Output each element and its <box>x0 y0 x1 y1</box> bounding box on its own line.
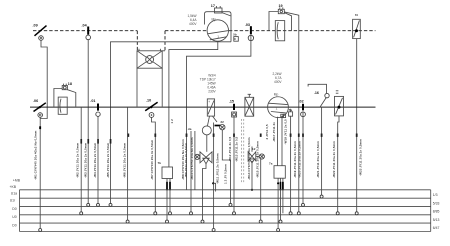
svg-text:.16: .16 <box>314 91 319 95</box>
wire valve V2 contact to rail 5 <box>261 159 262 222</box>
rail block frame <box>19 190 21 232</box>
svg-text:-W20 JY11 20a 2x 0,5mm: -W20 JY11 20a 2x 0,5mm <box>297 141 301 178</box>
rail 1 <box>20 189 431 191</box>
svg-text:-W5 JY11 20a 2x 0,5mm: -W5 JY11 20a 2x 0,5mm <box>106 143 110 178</box>
dashed control bus segment 3 <box>229 30 376 32</box>
wire S16 to rail 2 <box>321 107 323 196</box>
terminal X15 <box>229 99 237 117</box>
rail 6 <box>20 231 431 233</box>
switch S06 on main bus <box>33 99 46 117</box>
wire P box to terminal 32 <box>213 116 218 122</box>
motor M1 <box>207 18 229 42</box>
pressure switch 2 (top right) <box>353 14 361 39</box>
svg-text:2: 2 <box>355 14 359 16</box>
dashed drop to valve box left pin <box>136 31 138 51</box>
rail 3 <box>20 205 431 207</box>
relay 19 body <box>275 21 284 41</box>
rail labels left <box>9 178 20 227</box>
actuator P box <box>207 99 214 116</box>
motor M2 left leg to heater box B <box>277 117 279 166</box>
svg-text:+KB: +KB <box>9 185 16 189</box>
svg-text:-W17 JY11 2x: -W17 JY11 2x <box>272 122 276 142</box>
dashed control bus segment 1 <box>33 30 137 32</box>
svg-text:18: 18 <box>68 82 72 86</box>
cable markers <box>80 134 357 144</box>
wire Y terminal to rail 6 <box>213 123 215 231</box>
svg-text:-W22 JY11 20a 2x 0,5mm: -W22 JY11 20a 2x 0,5mm <box>332 141 336 178</box>
svg-text:-W3 JY11 20a 2x 0,5mm: -W3 JY11 20a 2x 0,5mm <box>84 143 88 178</box>
svg-text:-W7 CYKY40 20a 4x 0,5mm: -W7 CYKY40 20a 4x 0,5mm <box>150 140 154 180</box>
svg-text:1: 1 <box>276 107 278 111</box>
svg-text:.09: .09 <box>33 24 38 28</box>
relay 18 body <box>58 97 67 114</box>
svg-text:Mp: Mp <box>274 93 279 97</box>
relay 19 connector <box>278 4 284 14</box>
relay 18 connector <box>62 82 72 90</box>
svg-text:1 2: 1 2 <box>170 119 174 124</box>
svg-text:U1a: U1a <box>11 192 17 196</box>
relay 18 bracket right <box>67 90 75 107</box>
motor valve V1 drive <box>202 126 211 135</box>
motor M2 value label <box>272 72 282 84</box>
main bus L <box>30 106 376 108</box>
motor valve V1 stem <box>206 135 208 152</box>
rail 3 terminal circles <box>87 203 305 206</box>
rail labels right <box>433 193 440 230</box>
svg-text:5/33: 5/33 <box>433 201 440 205</box>
wire P box to motor valve drive <box>207 116 209 126</box>
rail 2 terminal circles <box>320 195 323 198</box>
svg-text:-W1 CYKY40 20a 4Gx2 No 0,5mm: -W1 CYKY40 20a 4Gx2 No 0,5mm <box>34 130 38 180</box>
svg-text:-W21 JY11 20a 2x 0,5mm: -W21 JY11 20a 2x 0,5mm <box>316 141 320 178</box>
wire valve V1 to rail 5 <box>203 164 207 222</box>
svg-text:19: 19 <box>279 4 283 8</box>
motor M1 bracket <box>205 12 232 42</box>
motor M2 <box>268 93 289 118</box>
heater box A leg to rail 5 <box>166 179 168 222</box>
connector 17 on motor M1 <box>211 4 231 16</box>
svg-text:1: 1 <box>217 35 219 39</box>
svg-text:-W14 CYKY40 20a No 0,5mm: -W14 CYKY40 20a No 0,5mm <box>247 137 251 180</box>
svg-text:.10: .10 <box>146 98 151 102</box>
svg-text:17: 17 <box>211 4 215 8</box>
rail 4 terminal circles <box>80 212 359 215</box>
svg-text:-W9 JY11 20a 2x 0,5mm: -W9 JY11 20a 2x 0,5mm <box>184 143 188 178</box>
svg-text:7a: 7a <box>269 162 273 166</box>
terminal X01 <box>90 99 100 116</box>
svg-text:230V: 230V <box>208 90 216 94</box>
svg-text:8/85: 8/85 <box>433 210 440 214</box>
wire switch 2 to rail 4 <box>356 39 358 214</box>
valve V2 body <box>248 147 256 163</box>
heater box B leg to rail 5 <box>280 178 282 221</box>
motor M2 right leg to heater box B <box>281 116 283 166</box>
wire X15 to rail 4 <box>233 117 235 213</box>
valve V2 position contact <box>256 154 265 159</box>
motor M1 value label <box>187 14 197 26</box>
flow switch F2 on main bus <box>335 91 344 116</box>
terminal 32 <box>215 120 226 130</box>
svg-text:D0: D0 <box>12 207 16 211</box>
switch S09 <box>33 24 47 41</box>
svg-text:-W6 JY11 20a 2x 0,5mm: -W6 JY11 20a 2x 0,5mm <box>123 143 127 178</box>
relay 19 bracket right <box>284 13 291 31</box>
rail 5 <box>20 222 431 224</box>
cable marker W1 <box>39 126 41 129</box>
svg-text:32: 32 <box>220 120 224 124</box>
wire motor M1 left terminal to heater box A <box>169 41 218 167</box>
heater box A <box>158 161 173 179</box>
svg-text:-W18 JY11 2x 0,5: -W18 JY11 2x 0,5 <box>284 119 288 145</box>
dashed sensor pair <box>241 119 243 183</box>
svg-text:-W19 JY11 20a 2x 0,5mm: -W19 JY11 20a 2x 0,5mm <box>293 141 297 178</box>
relay 19 bracket left <box>269 12 278 31</box>
svg-text:1/3: 1/3 <box>433 193 438 197</box>
svg-text:.03: .03 <box>245 23 250 27</box>
svg-text:U0: U0 <box>12 215 16 219</box>
svg-text:.01: .01 <box>90 99 95 103</box>
svg-text:.15: .15 <box>229 99 234 103</box>
terminal X03 <box>245 23 254 41</box>
rail 6 terminal circles <box>39 229 280 232</box>
svg-text:.02: .02 <box>299 100 304 104</box>
terminal X02 <box>299 100 306 117</box>
svg-text:5b: 5b <box>233 32 237 36</box>
wire valve V2 stem to rail 1 <box>251 161 253 190</box>
wire X04 to rail 3 <box>87 40 89 205</box>
svg-text:U1r: U1r <box>10 199 16 203</box>
wire X03 down and left <box>187 41 251 190</box>
wire bus tap to rail 5 <box>127 107 129 221</box>
svg-text:+: + <box>208 100 210 104</box>
svg-text:6/47: 6/47 <box>433 226 440 230</box>
svg-text:5/13: 5/13 <box>433 218 440 222</box>
switch S16 <box>308 84 329 107</box>
switch S10 on main bus <box>145 98 157 117</box>
svg-text:1 2 JY 0,5mm: 1 2 JY 0,5mm <box>223 164 227 184</box>
rail 2 <box>20 197 431 199</box>
wire bus tap to rail 4 <box>80 107 82 213</box>
svg-text:-W13 JY11 2x 0,5: -W13 JY11 2x 0,5 <box>235 136 239 162</box>
svg-text:-W12 JY11 2x 0,5: -W12 JY11 2x 0,5 <box>228 136 232 162</box>
valve V1 position contact <box>195 154 200 159</box>
svg-text:7b: 7b <box>158 161 162 165</box>
wire terminal 32 to rail 3 <box>222 130 230 205</box>
rail 5 terminal circles <box>126 220 282 223</box>
svg-text:-W23 JY11 20a 2x 0,5mm: -W23 JY11 20a 2x 0,5mm <box>358 139 362 176</box>
dashed drop to valve box right pin <box>164 31 166 51</box>
valve Y1 enclosure <box>136 68 138 106</box>
node da wire to rail 1 <box>188 127 195 213</box>
heater box A leg to rail 4 <box>169 179 171 214</box>
svg-text:400V: 400V <box>189 22 197 26</box>
wire from S09 down to switch S06 branch <box>40 40 47 118</box>
wire S06 to rail 6 <box>39 117 41 230</box>
svg-text:2 JY11 0,5: 2 JY11 0,5 <box>265 124 269 139</box>
heater box B leg to rail 4 <box>282 178 284 213</box>
svg-text:Mp: Mp <box>212 18 217 22</box>
svg-text:da: da <box>188 127 192 131</box>
connector 1a of motor M2 <box>289 108 293 116</box>
wire S10 to rail 4 <box>152 117 156 213</box>
wire flow switch F2 to rail 4 <box>338 116 339 213</box>
rail 4 <box>20 214 431 216</box>
heater box B <box>269 162 285 179</box>
relay 19 wire to rail 4 <box>284 12 299 213</box>
wire X02 to rail 3 <box>302 117 304 205</box>
svg-text:-W10 CYKY50 20a No 0,5mm: -W10 CYKY50 20a No 0,5mm <box>190 137 194 180</box>
solenoid valve Y1 crossed box <box>137 49 165 68</box>
svg-text:-W15 JY11 20a 2x 0,5mm: -W15 JY11 20a 2x 0,5mm <box>256 141 260 178</box>
wire X01 to rail 3 <box>97 116 99 204</box>
filter X box <box>245 94 254 116</box>
svg-text:400V: 400V <box>274 80 282 84</box>
actuator text block <box>200 74 217 94</box>
motor valve V1 body <box>200 152 212 164</box>
svg-text:D0: D0 <box>12 223 16 227</box>
svg-text:-W2 JY11 20a 2x 0,5mm: -W2 JY11 20a 2x 0,5mm <box>76 143 80 178</box>
svg-text:.06: .06 <box>33 99 38 103</box>
svg-text:-W4 JY11 20a 2x 0,5mm: -W4 JY11 20a 2x 0,5mm <box>93 143 97 178</box>
svg-text:+MB: +MB <box>13 178 21 182</box>
svg-text:-W11 JY11 2x 0,5mm: -W11 JY11 2x 0,5mm <box>215 153 219 184</box>
relay 18 bracket left <box>54 89 62 107</box>
heater box B wire to rail 6 <box>277 178 279 230</box>
wire connector 1a to rail 4 <box>290 116 292 213</box>
dashed control bus segment 2 <box>165 30 207 32</box>
terminal 5b of motor M1 <box>233 32 238 41</box>
terminal X04 <box>82 24 91 40</box>
wire motor M1 right terminal to rail 3 <box>111 42 232 205</box>
